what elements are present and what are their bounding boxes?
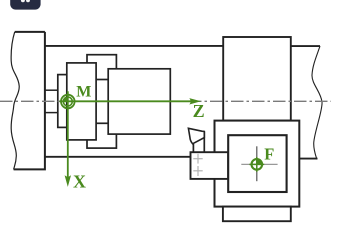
tool shank <box>193 132 204 153</box>
bed top line <box>45 45 223 47</box>
F symbol <box>249 157 264 172</box>
holder centers <box>193 154 202 176</box>
app icon (cut off at top) <box>10 0 40 10</box>
svg-text:Z: Z <box>193 101 205 121</box>
turret inner box <box>228 135 286 192</box>
chuck step box <box>58 75 67 128</box>
X axis <box>65 91 71 187</box>
chuck body A <box>67 63 96 140</box>
turret column <box>223 37 291 121</box>
cylinder C <box>108 69 170 134</box>
connector neck lines <box>96 79 108 81</box>
svg-text:M: M <box>76 84 91 101</box>
M symbol <box>61 95 75 109</box>
headstock wall with break line <box>11 32 45 170</box>
cutting insert <box>188 128 204 144</box>
tool holder <box>191 152 229 179</box>
turret bottom tab <box>223 207 291 222</box>
right stub top <box>291 45 320 47</box>
rear cylinder B <box>87 55 116 148</box>
svg-text:X: X <box>73 172 86 192</box>
centerline <box>0 100 331 102</box>
bed bottom line <box>45 156 191 158</box>
svg-text:F: F <box>264 144 274 163</box>
spindle nose lines <box>45 89 58 91</box>
F crosshair <box>256 146 258 181</box>
right stub bottom <box>299 158 317 160</box>
Z axis <box>60 98 202 104</box>
turret outer box <box>215 121 300 207</box>
right break line <box>312 46 322 159</box>
